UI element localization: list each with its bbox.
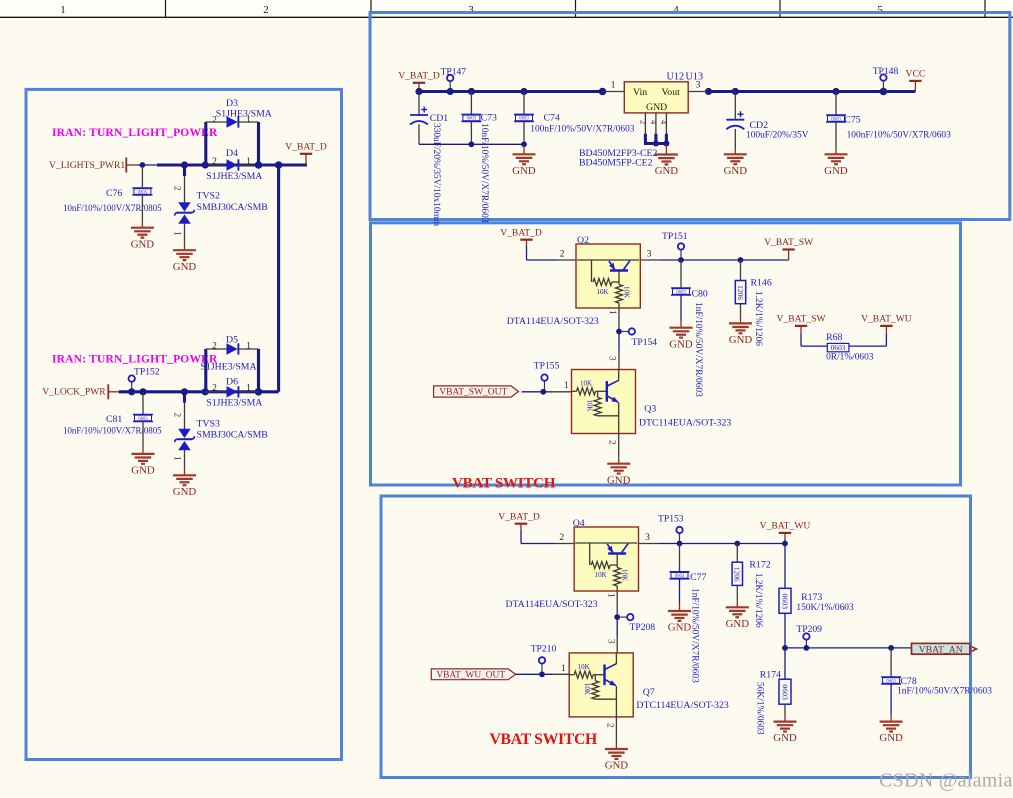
svg-text:1nF/10%/50V/X7R/0603: 1nF/10%/50V/X7R/0603 bbox=[693, 302, 703, 397]
svg-text:1: 1 bbox=[173, 231, 183, 236]
svg-text:2: 2 bbox=[212, 341, 217, 351]
svg-text:BD450M5FP-CE2: BD450M5FP-CE2 bbox=[579, 158, 653, 169]
svg-text:1: 1 bbox=[60, 4, 66, 16]
svg-text:TVS2: TVS2 bbox=[197, 191, 221, 202]
svg-text:10K: 10K bbox=[595, 571, 607, 579]
svg-text:10nF/10%/50V/X7R/0603: 10nF/10%/50V/X7R/0603 bbox=[479, 123, 489, 223]
svg-text:0805: 0805 bbox=[138, 190, 148, 195]
svg-text:0R/1%/0603: 0R/1%/0603 bbox=[826, 353, 874, 363]
svg-text:10K: 10K bbox=[621, 569, 629, 581]
svg-text:3: 3 bbox=[608, 356, 618, 361]
svg-text:VCC: VCC bbox=[906, 69, 926, 80]
svg-text:DTA114EUA/SOT-323: DTA114EUA/SOT-323 bbox=[506, 599, 598, 610]
svg-text:0603: 0603 bbox=[780, 593, 789, 609]
svg-text:10K: 10K bbox=[586, 400, 594, 412]
svg-text:GND: GND bbox=[605, 760, 629, 772]
svg-text:R146: R146 bbox=[751, 278, 772, 289]
svg-text:100uF/20%/35V: 100uF/20%/35V bbox=[746, 131, 809, 141]
svg-text:R174: R174 bbox=[760, 670, 781, 681]
svg-text:10nF/10%/100V/X7R/0805: 10nF/10%/100V/X7R/0805 bbox=[63, 426, 162, 436]
svg-text:10K: 10K bbox=[580, 380, 592, 388]
svg-text:GND: GND bbox=[655, 165, 679, 177]
svg-text:2: 2 bbox=[560, 532, 565, 542]
svg-text:VBAT_SW_OUT: VBAT_SW_OUT bbox=[439, 388, 507, 398]
svg-text:C74: C74 bbox=[544, 113, 560, 124]
svg-text:0603: 0603 bbox=[831, 117, 841, 122]
svg-text:GND: GND bbox=[729, 334, 753, 346]
svg-text:1nF/10%/50V/X7R/0603: 1nF/10%/50V/X7R/0603 bbox=[690, 588, 700, 683]
svg-text:TP208: TP208 bbox=[630, 622, 656, 633]
svg-text:1.2K/1%/1206: 1.2K/1%/1206 bbox=[753, 573, 763, 628]
svg-text:C81: C81 bbox=[106, 414, 122, 425]
svg-text:GND: GND bbox=[646, 102, 667, 113]
svg-text:0603: 0603 bbox=[675, 574, 685, 579]
svg-text:4: 4 bbox=[649, 120, 659, 125]
svg-text:TP153: TP153 bbox=[658, 514, 684, 525]
svg-text:V_LIGHTS_PWR1: V_LIGHTS_PWR1 bbox=[49, 160, 125, 171]
svg-text:Q3: Q3 bbox=[644, 404, 656, 415]
svg-text:1: 1 bbox=[246, 341, 251, 351]
svg-text:VBAT_AN: VBAT_AN bbox=[919, 645, 963, 656]
svg-text:1: 1 bbox=[246, 156, 251, 166]
svg-text:V_BAT_WU: V_BAT_WU bbox=[861, 314, 912, 325]
svg-text:1206: 1206 bbox=[733, 567, 742, 582]
svg-text:GND: GND bbox=[724, 165, 748, 177]
svg-text:GND: GND bbox=[669, 338, 693, 350]
svg-text:GND: GND bbox=[131, 238, 155, 250]
svg-text:V_BAT_SW: V_BAT_SW bbox=[776, 314, 826, 325]
svg-text:C76: C76 bbox=[106, 188, 122, 199]
svg-text:R68: R68 bbox=[826, 332, 842, 343]
svg-text:3: 3 bbox=[696, 80, 701, 90]
svg-text:C78: C78 bbox=[900, 676, 916, 687]
svg-text:2: 2 bbox=[173, 413, 183, 418]
svg-text:GND: GND bbox=[879, 732, 903, 744]
svg-text:10nF/10%/100V/X7R/0805: 10nF/10%/100V/X7R/0805 bbox=[63, 203, 162, 213]
svg-text:SMBJ30CA/SMB: SMBJ30CA/SMB bbox=[197, 430, 269, 441]
svg-text:CD2: CD2 bbox=[750, 120, 769, 131]
svg-text:TVS3: TVS3 bbox=[197, 419, 221, 430]
svg-text:VBAT SWITCH: VBAT SWITCH bbox=[490, 731, 599, 748]
svg-text:SMBJ30CA/SMB: SMBJ30CA/SMB bbox=[197, 202, 269, 213]
svg-text:V_LOCK_PWR: V_LOCK_PWR bbox=[42, 387, 106, 398]
svg-text:V_BAT_D: V_BAT_D bbox=[498, 511, 540, 522]
svg-text:1: 1 bbox=[608, 310, 618, 315]
svg-text:C73: C73 bbox=[481, 113, 497, 124]
svg-text:1.2K/1%/1206: 1.2K/1%/1206 bbox=[753, 291, 763, 346]
svg-text:2: 2 bbox=[212, 382, 217, 392]
svg-text:U13: U13 bbox=[686, 72, 704, 83]
svg-text:GND: GND bbox=[824, 165, 848, 177]
svg-text:TP152: TP152 bbox=[134, 367, 160, 378]
svg-text:DTC114EUA/SOT-323: DTC114EUA/SOT-323 bbox=[636, 700, 728, 711]
svg-text:1: 1 bbox=[173, 456, 183, 461]
svg-text:IRAN: TURN_LIGHT_POWER: IRAN: TURN_LIGHT_POWER bbox=[52, 354, 218, 366]
svg-text:C80: C80 bbox=[692, 289, 708, 300]
svg-text:GND: GND bbox=[173, 486, 197, 498]
svg-text:S1JHE3/SMA: S1JHE3/SMA bbox=[201, 362, 257, 373]
svg-text:VBAT_WU_OUT: VBAT_WU_OUT bbox=[436, 671, 505, 681]
svg-text:2: 2 bbox=[173, 186, 183, 191]
svg-text:D6: D6 bbox=[226, 377, 238, 388]
svg-text:0603: 0603 bbox=[676, 290, 686, 295]
svg-text:10K: 10K bbox=[623, 286, 631, 298]
svg-text:1: 1 bbox=[561, 663, 566, 673]
svg-text:TP209: TP209 bbox=[796, 624, 822, 635]
svg-text:330uF/20%/35V/10x10mm: 330uF/20%/35V/10x10mm bbox=[431, 123, 441, 227]
svg-text:0603: 0603 bbox=[467, 117, 477, 122]
svg-text:TP210: TP210 bbox=[531, 644, 557, 655]
svg-text:D5: D5 bbox=[226, 335, 238, 346]
svg-text:D4: D4 bbox=[226, 148, 238, 159]
svg-text:150K/1%/0603: 150K/1%/0603 bbox=[796, 603, 854, 613]
svg-text:0603: 0603 bbox=[886, 679, 896, 684]
svg-text:S1JHE3/SMA: S1JHE3/SMA bbox=[216, 109, 272, 120]
svg-text:3: 3 bbox=[607, 639, 617, 644]
svg-text:1: 1 bbox=[564, 380, 569, 390]
svg-text:TP151: TP151 bbox=[662, 231, 688, 242]
svg-text:3: 3 bbox=[468, 4, 474, 16]
svg-text:V_BAT_WU: V_BAT_WU bbox=[760, 521, 811, 532]
svg-text:V_BAT_D: V_BAT_D bbox=[285, 141, 327, 152]
svg-text:2: 2 bbox=[263, 4, 269, 16]
svg-text:2: 2 bbox=[560, 249, 565, 259]
svg-text:0603: 0603 bbox=[519, 117, 529, 122]
svg-text:GND: GND bbox=[607, 474, 631, 486]
svg-text:3: 3 bbox=[645, 532, 650, 542]
svg-text:3: 3 bbox=[647, 249, 652, 259]
svg-text:100nF/10%/50V/X7R/0603: 100nF/10%/50V/X7R/0603 bbox=[530, 125, 634, 135]
svg-text:Q7: Q7 bbox=[643, 687, 655, 698]
svg-text:DTC114EUA/SOT-323: DTC114EUA/SOT-323 bbox=[639, 418, 731, 429]
svg-text:V_BAT_SW: V_BAT_SW bbox=[764, 237, 814, 248]
svg-text:100nF/10%/50V/X7R/0603: 100nF/10%/50V/X7R/0603 bbox=[847, 131, 951, 141]
svg-text:10K: 10K bbox=[578, 663, 590, 671]
svg-text:R172: R172 bbox=[749, 560, 770, 571]
svg-text:Vin: Vin bbox=[633, 87, 647, 98]
svg-text:DTA114EUA/SOT-323: DTA114EUA/SOT-323 bbox=[507, 316, 599, 327]
svg-text:IRAN: TURN_LIGHT_POWER: IRAN: TURN_LIGHT_POWER bbox=[52, 127, 218, 139]
svg-text:56K/1%/0603: 56K/1%/0603 bbox=[755, 682, 765, 735]
svg-text:2: 2 bbox=[212, 156, 217, 166]
svg-text:V_BAT_D: V_BAT_D bbox=[500, 227, 542, 238]
svg-text:GND: GND bbox=[726, 618, 750, 630]
svg-text:GND: GND bbox=[512, 165, 536, 177]
svg-text:C77: C77 bbox=[690, 572, 706, 583]
svg-text:Vout: Vout bbox=[662, 87, 681, 98]
svg-text:1: 1 bbox=[611, 80, 616, 90]
svg-text:TP155: TP155 bbox=[534, 361, 560, 372]
svg-text:1206: 1206 bbox=[736, 285, 745, 300]
svg-text:D3: D3 bbox=[226, 98, 238, 109]
svg-text:10K: 10K bbox=[583, 683, 591, 695]
svg-text:VBAT SWITCH: VBAT SWITCH bbox=[452, 475, 556, 492]
svg-text:S1JHE3/SMA: S1JHE3/SMA bbox=[206, 171, 262, 182]
svg-text:5: 5 bbox=[877, 4, 883, 16]
svg-text:0603: 0603 bbox=[831, 343, 846, 352]
svg-text:V_BAT_D: V_BAT_D bbox=[398, 70, 440, 81]
svg-text:4: 4 bbox=[659, 120, 669, 125]
svg-text:1: 1 bbox=[607, 593, 617, 598]
svg-text:1: 1 bbox=[246, 382, 251, 392]
svg-text:2: 2 bbox=[606, 723, 616, 728]
svg-text:2: 2 bbox=[639, 120, 649, 124]
svg-text:1nF/10%/50V/X7R/0603: 1nF/10%/50V/X7R/0603 bbox=[897, 686, 992, 696]
svg-text:GND: GND bbox=[131, 465, 155, 477]
svg-text:GND: GND bbox=[773, 732, 797, 744]
svg-text:GND: GND bbox=[668, 622, 692, 634]
svg-text:GND: GND bbox=[173, 261, 197, 273]
svg-text:0603: 0603 bbox=[780, 684, 789, 700]
svg-text:U12: U12 bbox=[667, 72, 685, 83]
svg-text:2: 2 bbox=[608, 440, 618, 445]
svg-text:4: 4 bbox=[673, 4, 679, 16]
svg-text:0805: 0805 bbox=[138, 417, 148, 422]
svg-text:S1JHE3/SMA: S1JHE3/SMA bbox=[206, 398, 262, 409]
svg-text:R173: R173 bbox=[801, 592, 822, 603]
svg-text:10K: 10K bbox=[596, 288, 608, 296]
svg-text:C75: C75 bbox=[844, 115, 860, 126]
svg-text:TP154: TP154 bbox=[632, 337, 658, 348]
svg-text:CSDN @alamia: CSDN @alamia bbox=[879, 770, 1013, 792]
